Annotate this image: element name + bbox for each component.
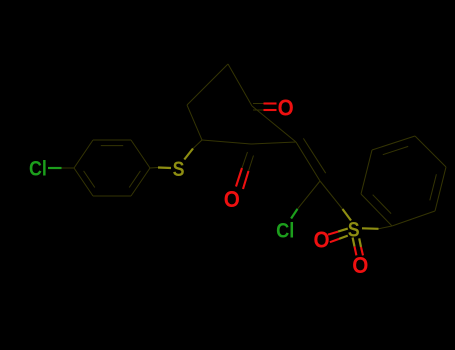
svg-text:O: O (278, 94, 294, 120)
svg-text:Cl: Cl (276, 219, 294, 243)
svg-text:O: O (224, 186, 240, 212)
svg-text:O: O (314, 227, 330, 253)
svg-text:O: O (352, 252, 368, 278)
svg-text:S: S (173, 158, 185, 182)
svg-text:S: S (348, 218, 360, 242)
svg-text:Cl: Cl (29, 157, 47, 181)
